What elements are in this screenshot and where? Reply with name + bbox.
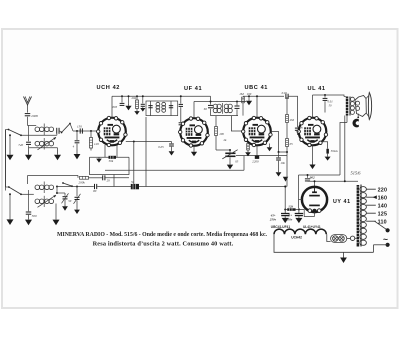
svg-text:20: 20 bbox=[107, 179, 111, 183]
svg-text:002: 002 bbox=[310, 176, 315, 180]
svg-text:20k: 20k bbox=[132, 96, 137, 100]
svg-text:120: 120 bbox=[94, 142, 99, 146]
svg-text:Resa indistorta d’uscita 2 wat: Resa indistorta d’uscita 2 watt. Consumo… bbox=[93, 240, 234, 247]
svg-text:2200: 2200 bbox=[252, 160, 259, 164]
svg-text:1M: 1M bbox=[239, 92, 244, 96]
svg-text:60: 60 bbox=[204, 107, 208, 111]
svg-text:2M: 2M bbox=[290, 118, 295, 122]
svg-text:140: 140 bbox=[378, 203, 388, 209]
svg-text:UL 41: UL 41 bbox=[308, 86, 326, 92]
svg-text:~: ~ bbox=[383, 234, 388, 244]
svg-text:250v: 250v bbox=[269, 217, 277, 221]
svg-text:150: 150 bbox=[77, 124, 82, 128]
svg-text:UF 41: UF 41 bbox=[184, 86, 202, 92]
svg-text:10n: 10n bbox=[280, 161, 285, 165]
svg-text:200k: 200k bbox=[79, 180, 86, 184]
svg-text:100: 100 bbox=[219, 132, 224, 136]
svg-text:12k: 12k bbox=[288, 204, 293, 208]
svg-text:UY 41: UY 41 bbox=[333, 199, 351, 205]
svg-text:UL41+UY41: UL41+UY41 bbox=[303, 225, 321, 229]
svg-text:50: 50 bbox=[68, 199, 72, 203]
svg-text:UCH42: UCH42 bbox=[291, 236, 302, 240]
svg-text:UCH 42: UCH 42 bbox=[97, 85, 121, 91]
svg-text:250v: 250v bbox=[285, 217, 293, 221]
svg-text:500: 500 bbox=[32, 214, 37, 218]
svg-text:2000: 2000 bbox=[31, 114, 38, 118]
svg-text:05: 05 bbox=[235, 160, 239, 164]
svg-text:515/6: 515/6 bbox=[351, 171, 362, 176]
svg-text:740: 740 bbox=[18, 143, 23, 147]
svg-text:005: 005 bbox=[113, 105, 118, 109]
svg-text:UBC 41: UBC 41 bbox=[245, 85, 269, 91]
svg-text:50mA: 50mA bbox=[331, 149, 338, 153]
svg-text:0.05: 0.05 bbox=[158, 145, 164, 149]
svg-text:50k: 50k bbox=[109, 159, 114, 163]
svg-text:MINERVA RADIO - Mod. 515/6 - O: MINERVA RADIO - Mod. 515/6 - Onde medie … bbox=[57, 232, 268, 238]
svg-text:220: 220 bbox=[378, 187, 388, 193]
svg-text:UBC41-UF41: UBC41-UF41 bbox=[271, 225, 291, 229]
svg-text:80: 80 bbox=[93, 189, 97, 193]
svg-text:160: 160 bbox=[378, 195, 388, 201]
svg-text:0.02: 0.02 bbox=[282, 91, 288, 95]
svg-text:125: 125 bbox=[378, 211, 388, 217]
svg-text:05: 05 bbox=[290, 142, 294, 146]
